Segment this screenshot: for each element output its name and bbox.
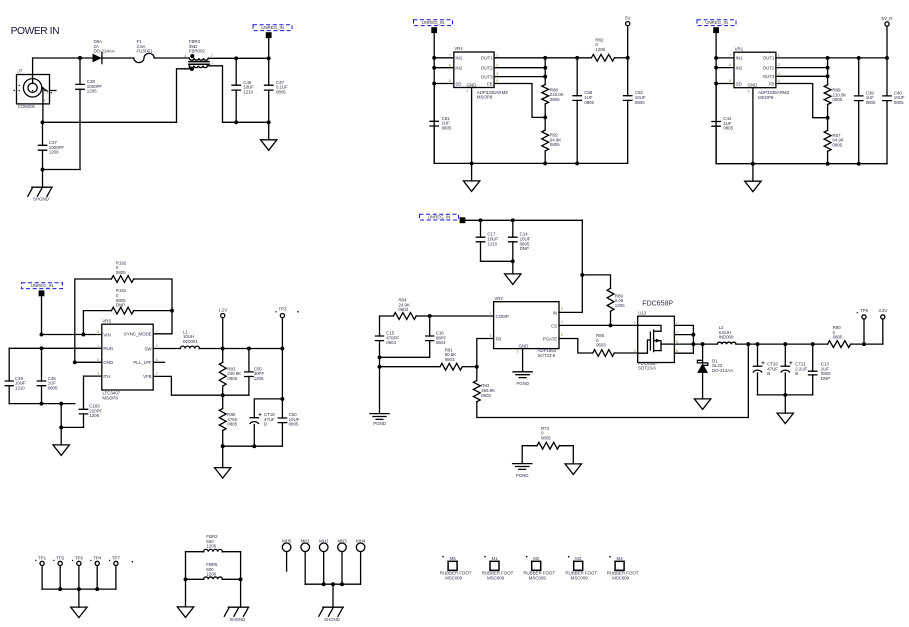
- node rail ct19: [252, 444, 256, 448]
- svg-text:4: 4: [156, 344, 158, 348]
- svg-text:0805: 0805: [635, 100, 645, 105]
- node sync column R191: [170, 309, 174, 313]
- ground (3.3V out): [784, 395, 786, 413]
- resistor R92: [542, 130, 549, 151]
- svg-text:MSOP8: MSOP8: [102, 395, 118, 400]
- svg-text:B: B: [767, 371, 770, 376]
- resistor R93: [473, 381, 480, 402]
- svg-text:0805: 0805: [584, 100, 594, 105]
- svg-text:MSC009: MSC009: [571, 575, 589, 580]
- regulator VR4: [454, 52, 494, 88]
- wire VR4 fb route: [494, 84, 545, 118]
- svg-text:6: 6: [449, 63, 451, 67]
- resistor R82: [591, 54, 614, 61]
- node vr1 out1-R: [826, 56, 830, 60]
- net label UNREG_IN (VR4): [414, 20, 453, 26]
- svg-text:1206: 1206: [254, 376, 264, 381]
- svg-text:MSOP8: MSOP8: [758, 95, 774, 100]
- svg-text:VR1: VR1: [735, 46, 744, 51]
- power port UNREG_IN (VR4): [431, 27, 437, 33]
- svg-text:VR2: VR2: [494, 296, 503, 301]
- svg-text:0805: 0805: [289, 422, 299, 427]
- wire fbr left column: [185, 552, 187, 607]
- node out3 join: [543, 75, 547, 79]
- node fb divider: [475, 365, 479, 369]
- power port UNREG_IN (VR2): [460, 217, 466, 223]
- svg-text:J7: J7: [17, 68, 23, 73]
- svg-text:+: +: [258, 412, 262, 418]
- net label UNREG_IN (VR1): [697, 20, 736, 26]
- node vr1 out3 join: [826, 74, 830, 78]
- svg-text:MSC009: MSC009: [529, 575, 547, 580]
- node vout ct21: [783, 342, 787, 346]
- node cap gnd: [511, 259, 515, 263]
- wire input cap gnd: [481, 260, 513, 262]
- node junction C47 column: [267, 120, 271, 124]
- capacitor C15: [376, 336, 384, 341]
- wire J7 tip to top rail: [32, 58, 34, 83]
- capacitor C38: [79, 58, 81, 84]
- mounting hole MH5: [282, 543, 291, 552]
- earth PGND (VR2): [513, 372, 532, 378]
- wire RUN row: [9, 347, 102, 349]
- wire VR4 out2: [494, 67, 545, 69]
- resistor R89 (sense): [607, 288, 614, 311]
- svg-text:U13: U13: [638, 311, 647, 316]
- node comp net 2: [378, 365, 382, 369]
- node comp net 1: [378, 355, 382, 359]
- testpoint TP1: [40, 561, 44, 565]
- wire R90 to 3.3V: [851, 343, 883, 345]
- chassis ground SHGND (FBR): [228, 606, 248, 608]
- wire R89 to CS: [610, 311, 612, 325]
- node vr1 bus R87: [826, 162, 830, 166]
- ground (VR2 input): [512, 261, 514, 274]
- node VR1 in2: [714, 66, 718, 70]
- capacitor C46: [235, 58, 237, 85]
- svg-text:2: 2: [778, 63, 780, 67]
- svg-text:5: 5: [496, 79, 498, 83]
- wire VR1 out1: [776, 57, 887, 59]
- node junction at C46 top: [234, 56, 238, 60]
- testpoint TP5: [862, 315, 866, 319]
- svg-text:SD: SD: [455, 81, 462, 86]
- wire IN column: [559, 220, 582, 312]
- node c14 top: [511, 218, 515, 222]
- svg-text:SOT23-6: SOT23-6: [638, 366, 656, 371]
- net label UNREG_IN (VR5): [22, 283, 63, 289]
- wire R91 row: [380, 366, 441, 368]
- svg-text:IND001: IND001: [183, 339, 198, 344]
- svg-text:IN: IN: [553, 310, 557, 315]
- wire VR1 gnd bus: [716, 163, 887, 165]
- svg-text:COMP: COMP: [496, 314, 509, 319]
- capacitor CT19 (tantalum): [250, 417, 258, 419]
- node mh rail 3: [340, 582, 344, 586]
- svg-text:TP2: TP2: [56, 556, 65, 561]
- svg-text:0603: 0603: [445, 357, 455, 362]
- capacitor C81: [433, 84, 435, 122]
- svg-text:MH1: MH1: [301, 539, 311, 544]
- capacitor C58: [576, 58, 578, 96]
- svg-text:IN2: IN2: [455, 66, 462, 71]
- wire R191 right lead: [134, 310, 172, 312]
- wire return bus left: [43, 121, 177, 123]
- rubber foot M3: [574, 561, 583, 570]
- svg-text:0805: 0805: [832, 97, 842, 102]
- wire VR4 out1: [494, 57, 591, 59]
- svg-text:0805: 0805: [833, 335, 843, 340]
- wire VR2 gnd stub: [522, 349, 524, 371]
- svg-text:OUT3: OUT3: [763, 74, 775, 79]
- wire COMP row: [430, 315, 494, 317]
- svg-text:RUN: RUN: [103, 346, 113, 351]
- svg-text:6: 6: [729, 63, 731, 67]
- wire PGATE route: [559, 339, 593, 354]
- svg-text:DNP: DNP: [116, 303, 125, 308]
- svg-text:6: 6: [676, 349, 678, 353]
- node tp rail 3: [95, 587, 99, 591]
- wire R84 right lead: [416, 315, 430, 317]
- node tp rail 1: [58, 587, 62, 591]
- svg-text:0603: 0603: [596, 343, 606, 348]
- svg-text:IN1: IN1: [455, 56, 462, 61]
- wire VR4 out3: [494, 76, 545, 78]
- node vr1 bus gnd: [751, 162, 755, 166]
- resistor R73: [537, 442, 559, 449]
- svg-text:2: 2: [47, 91, 49, 95]
- wire VR1 out2: [776, 67, 828, 69]
- svg-text:FB: FB: [769, 81, 775, 86]
- node junction C46 bottom: [234, 120, 238, 124]
- svg-text:5: 5: [97, 358, 99, 362]
- svg-text:M5: M5: [450, 556, 457, 561]
- svg-text:2: 2: [676, 330, 678, 334]
- wire lower gnd rail: [61, 404, 83, 428]
- wire R73 left: [522, 446, 537, 463]
- ferrite transformer FBR3: [189, 58, 208, 60]
- wire VR1 fb route: [776, 84, 828, 118]
- svg-text:TP4: TP4: [93, 556, 102, 561]
- wire GND row: [75, 361, 102, 363]
- svg-text:MSC009: MSC009: [487, 575, 505, 580]
- node rail c48: [40, 402, 44, 406]
- earth PGND (comp): [370, 414, 389, 420]
- svg-text:FDC658P: FDC658P: [642, 301, 673, 308]
- svg-text:2: 2: [156, 372, 158, 376]
- wire ITH row: [84, 375, 102, 377]
- regulator VR1: [734, 52, 776, 87]
- svg-text:POWER IN: POWER IN: [11, 26, 59, 37]
- svg-text:OUT2: OUT2: [763, 65, 775, 70]
- svg-text:0805: 0805: [550, 142, 560, 147]
- wire sense branch: [582, 275, 610, 288]
- svg-text:SYNC_MODE: SYNC_MODE: [124, 332, 152, 337]
- svg-text:1: 1: [496, 53, 498, 57]
- svg-text:0805: 0805: [541, 436, 551, 441]
- svg-text:TP1: TP1: [38, 556, 47, 561]
- wire R91 to FB node: [462, 366, 477, 368]
- svg-text:SHGND: SHGND: [230, 617, 247, 622]
- svg-text:1206: 1206: [595, 47, 605, 52]
- wire gnd bus right: [223, 121, 269, 123]
- svg-text:SHGND: SHGND: [33, 197, 50, 202]
- node out 1.2V: [221, 347, 225, 351]
- svg-text:3: 3: [211, 54, 213, 58]
- node mh rail 1: [322, 582, 326, 586]
- node vout c13: [811, 342, 815, 346]
- node tp5: [862, 342, 866, 346]
- node VR4 in1: [432, 56, 436, 60]
- node vr1 out2 join: [826, 66, 830, 70]
- wire top rail to diode: [33, 57, 93, 59]
- node c17 top: [479, 218, 483, 222]
- wire diode to fuse: [102, 57, 134, 59]
- node u13 drain 5: [691, 342, 695, 346]
- svg-text:VFB: VFB: [143, 374, 152, 379]
- node vin unreg: [40, 333, 44, 337]
- wire VR4 gnd bus: [434, 162, 628, 164]
- testpoint TP6: [77, 561, 81, 565]
- controller VR2: [494, 302, 559, 349]
- node sense top: [580, 273, 584, 277]
- svg-text:VR5: VR5: [102, 318, 111, 323]
- ground (FBR): [177, 607, 193, 618]
- svg-text:3: 3: [97, 372, 99, 376]
- wire out down column: [281, 349, 283, 399]
- rubber foot M4: [615, 561, 624, 570]
- svg-text:0805: 0805: [550, 97, 560, 102]
- svg-text:3: 3: [490, 333, 492, 337]
- svg-text:1206: 1206: [615, 303, 625, 308]
- svg-text:2: 2: [496, 63, 498, 67]
- svg-text:UNREG_IN: UNREG_IN: [428, 215, 451, 220]
- node comp c16: [428, 314, 432, 318]
- svg-text:SW: SW: [145, 346, 153, 351]
- power 5V: [626, 22, 630, 26]
- wire fuse to FBR3: [154, 57, 189, 59]
- earth PGND (R73): [513, 464, 532, 470]
- ground (power in): [261, 140, 277, 151]
- resistor R83: [222, 349, 224, 363]
- svg-text:3: 3: [43, 99, 45, 103]
- svg-text:1210: 1210: [487, 241, 497, 246]
- svg-text:0603: 0603: [481, 393, 491, 398]
- svg-text:IND009: IND009: [719, 335, 734, 340]
- power port UNREG_IN (VR5): [39, 290, 45, 296]
- svg-text:B: B: [795, 371, 798, 376]
- wire PLL_LPF stub: [153, 361, 164, 363]
- mounting hole MH1: [301, 543, 310, 552]
- wire VR1 out3: [776, 75, 828, 77]
- ground (D1): [694, 399, 710, 410]
- svg-text:0805: 0805: [276, 90, 286, 95]
- svg-text:1210: 1210: [243, 90, 253, 95]
- svg-text:M4: M4: [617, 556, 624, 561]
- capacitor C14: [512, 220, 514, 237]
- svg-text:5V: 5V: [625, 16, 630, 21]
- svg-text:8: 8: [729, 79, 731, 83]
- svg-text:UNREG_IN: UNREG_IN: [261, 25, 284, 30]
- wire VFB route: [153, 376, 249, 395]
- node d1 top: [701, 342, 705, 346]
- svg-text:VIN: VIN: [103, 332, 110, 337]
- wire R93 to vout rail: [477, 344, 749, 417]
- stray dot: [132, 561, 134, 563]
- svg-text:5: 5: [561, 333, 563, 337]
- resistor R84: [393, 313, 416, 320]
- node vout r93: [746, 342, 750, 346]
- svg-text:OUT2: OUT2: [481, 66, 493, 71]
- node junction shield: [41, 168, 45, 172]
- diode D8A: [93, 54, 102, 63]
- node junction at C38 top: [78, 56, 82, 60]
- wire R85 to gate: [614, 352, 637, 354]
- resistor R85: [593, 350, 615, 357]
- wire VR4 gnd pin: [471, 88, 473, 164]
- svg-text:1206: 1206: [206, 544, 216, 549]
- wire drain to L2: [693, 343, 717, 345]
- fuse F1: [134, 53, 154, 62]
- svg-text:0603: 0603: [386, 340, 396, 345]
- svg-text:1206: 1206: [206, 572, 216, 577]
- capacitor CT20 (tantalum): [757, 344, 759, 366]
- wire R82 to 5V column: [615, 57, 628, 59]
- svg-text:FB: FB: [496, 336, 502, 341]
- svg-text:1: 1: [490, 311, 492, 315]
- node lower rail: [59, 425, 63, 429]
- node out gnd: [783, 393, 787, 397]
- power port UNREG_IN (power in): [266, 32, 272, 38]
- power 3.3V: [881, 315, 885, 319]
- wire VR1 gnd pin: [752, 88, 754, 164]
- inductor L2: [717, 342, 736, 344]
- wire output gnd rail: [758, 394, 813, 396]
- svg-text:GND: GND: [519, 343, 530, 348]
- svg-text:8: 8: [156, 358, 158, 362]
- svg-text:0603: 0603: [436, 340, 446, 345]
- svg-text:1206: 1206: [49, 150, 59, 155]
- node VR4 fb join: [543, 115, 547, 119]
- node VR1 fb join: [826, 116, 830, 120]
- resistor R91: [440, 363, 462, 370]
- wire input gnd rail: [9, 403, 75, 405]
- svg-text:M1: M1: [491, 556, 498, 561]
- ground (VR5 input): [60, 427, 62, 445]
- ground (testpoints): [78, 589, 80, 607]
- capacitor C37: [42, 122, 44, 145]
- svg-text:MH4: MH4: [356, 539, 366, 544]
- svg-text:OUT1: OUT1: [481, 56, 493, 61]
- svg-text:UNREG_IN: UNREG_IN: [31, 283, 54, 288]
- power 5V_R: [885, 22, 889, 26]
- svg-text:GND: GND: [467, 82, 478, 87]
- node out1-R88: [543, 56, 547, 60]
- wire testpoint gnd rail: [42, 588, 116, 590]
- svg-text:TP5: TP5: [860, 308, 869, 313]
- svg-text:6: 6: [97, 330, 99, 334]
- capacitor C17: [480, 220, 482, 237]
- svg-text:MSOP8: MSOP8: [477, 95, 493, 100]
- svg-text:3.3V: 3.3V: [878, 308, 887, 313]
- svg-text:0603: 0603: [398, 307, 408, 312]
- svg-text:DNP: DNP: [821, 376, 830, 381]
- svg-text:FB: FB: [487, 81, 493, 86]
- node rail r86: [221, 444, 225, 448]
- svg-text:7: 7: [449, 53, 451, 57]
- svg-text:M3: M3: [575, 556, 582, 561]
- wire FB stub: [477, 339, 494, 381]
- svg-text:DO-214AA: DO-214AA: [94, 49, 115, 54]
- ground (1.2V): [222, 446, 224, 467]
- node 5V column: [626, 56, 630, 60]
- svg-text:DNP: DNP: [520, 246, 529, 251]
- svg-text:ITH: ITH: [103, 374, 110, 379]
- svg-text:TP6: TP6: [75, 556, 84, 561]
- svg-text:FBR002: FBR002: [189, 49, 206, 54]
- svg-text:0805: 0805: [48, 385, 58, 390]
- svg-text:PGATE: PGATE: [543, 336, 558, 341]
- testpoint TP3: [280, 314, 284, 318]
- svg-text:GND: GND: [748, 82, 759, 87]
- wire R89b to R87: [827, 105, 829, 131]
- resistor R90: [828, 341, 851, 348]
- wire L1 to output: [200, 348, 283, 350]
- resistor R87: [824, 130, 831, 151]
- wire R73 right: [559, 446, 573, 464]
- ground (VR4): [471, 163, 473, 181]
- inductor L1: [180, 346, 199, 348]
- capacitor C13: [812, 344, 814, 371]
- svg-text:UNREG_IN: UNREG_IN: [705, 20, 728, 25]
- node fbr left: [184, 577, 188, 581]
- wire FBR3 pin3 to UNREG_IN node: [208, 57, 269, 59]
- svg-text:1206: 1206: [87, 89, 97, 94]
- wire R192 left lead: [75, 279, 112, 362]
- capacitor C48: [41, 348, 43, 381]
- svg-text:UNREG_IN: UNREG_IN: [422, 20, 445, 25]
- resistor R89 (VR1): [824, 85, 831, 105]
- svg-text:1: 1: [676, 321, 678, 325]
- svg-text:0805: 0805: [227, 376, 237, 381]
- capacitor C52: [627, 58, 629, 96]
- capacitor C55: [248, 349, 250, 372]
- wire R89b column: [827, 58, 829, 85]
- node out TP3: [280, 347, 284, 351]
- resistor R192: [111, 276, 133, 283]
- node u13 drain 2: [691, 333, 695, 337]
- node VR1 in1: [714, 56, 718, 60]
- svg-text:+: +: [761, 361, 765, 367]
- svg-text:MSC009: MSC009: [612, 575, 630, 580]
- node junction J7 sleeve: [41, 120, 45, 124]
- node vfb r83: [221, 393, 225, 397]
- capacitor CT21 (tantalum): [784, 344, 786, 366]
- ferrite bead FBR2: [186, 551, 204, 553]
- svg-text:1: 1: [778, 54, 780, 58]
- svg-text:SHGND: SHGND: [324, 617, 341, 622]
- svg-text:PGND: PGND: [516, 473, 530, 478]
- svg-text:6: 6: [561, 307, 563, 311]
- svg-text:+: +: [789, 361, 793, 367]
- capacitor C47: [268, 58, 270, 85]
- wire 1.2V gnd rail: [223, 445, 283, 447]
- net label UNREG_IN (VR2): [420, 214, 459, 220]
- connector J7: [17, 75, 50, 104]
- rubber foot M1: [490, 561, 499, 570]
- ferrite bead FBR5: [186, 578, 204, 580]
- wire R88 column: [544, 58, 546, 85]
